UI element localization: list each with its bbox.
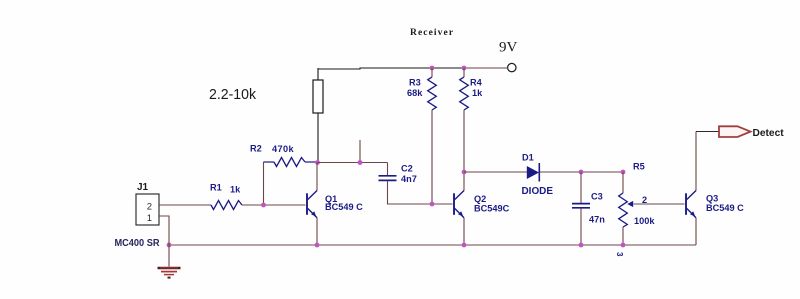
svg-text:R1: R1: [210, 183, 222, 193]
wire: pot bottom lead down to node: [317, 113, 319, 163]
Q1 emitter arrowhead: [311, 211, 316, 216]
wire: pot top lead: [317, 68, 319, 80]
svg-text:9V: 9V: [499, 40, 518, 56]
resistor R3 (68k): [431, 68, 433, 77]
svg-text:47n: 47n: [589, 214, 605, 224]
wire: R1 to Q1 base: [242, 204, 306, 206]
wire: collector node to D1 anode: [464, 171, 527, 173]
node junction rail/Q1 emitter: [315, 243, 320, 248]
transistor Q3 base bar: [685, 193, 687, 215]
wire: vertical from R1 node up to R2: [263, 162, 265, 205]
Q2 emitter arrowhead: [458, 211, 463, 216]
node junction top rail R4: [462, 66, 467, 71]
svg-text:DIODE: DIODE: [522, 186, 554, 197]
wire: Q3 collector up to port: [695, 132, 697, 191]
node junction rail/R5: [621, 243, 626, 248]
svg-text:2: 2: [147, 201, 152, 212]
svg-text:2.2-10k: 2.2-10k: [209, 86, 256, 103]
wire: R4 bottom lead to collector node: [463, 110, 465, 172]
diode D1 cathode bar: [538, 163, 540, 182]
svg-text:C2: C2: [401, 163, 413, 173]
resistor 2.2-10k (box body): [313, 80, 323, 113]
wire: D1 cathode to C3 node and R5: [540, 171, 623, 173]
svg-text:D1: D1: [522, 153, 534, 163]
wire: J1 pin2 to R1: [159, 204, 211, 206]
svg-text:Detect: Detect: [753, 128, 785, 139]
resistor R2 (470k): [264, 161, 275, 163]
resistor R1 (1k): [211, 201, 242, 210]
ground symbol bar 2: [161, 271, 177, 273]
capacitor C3 top plate: [572, 203, 590, 205]
port Detect: [719, 126, 751, 137]
svg-text:J1: J1: [137, 182, 149, 193]
wire: Q2 collector up to R4 node: [463, 172, 465, 191]
svg-text:100k: 100k: [634, 216, 655, 226]
wire: C3 bottom lead to ground rail: [580, 209, 582, 246]
R5 wiper arrow: [627, 201, 633, 207]
transistor Q1 base bar: [306, 193, 308, 215]
wire: Q3 emitter down to ground rail: [695, 218, 697, 245]
wire: down to C2 top plate: [387, 163, 389, 176]
wire: node to C2: [318, 162, 388, 164]
wire: R5 bottom lead to ground rail: [622, 227, 624, 245]
svg-text:68k: 68k: [407, 88, 423, 98]
Q3 emitter arrowhead: [690, 211, 695, 216]
svg-text:470k: 470k: [272, 144, 295, 154]
transistor Q2 collector: [455, 191, 464, 200]
node junction C3 top: [579, 170, 584, 175]
svg-text:R4: R4: [470, 78, 483, 88]
wire: C2 bottom plate down and right to Q2 base: [388, 181, 453, 204]
node junction R5 top: [621, 170, 626, 175]
svg-text:Q3: Q3: [706, 193, 718, 203]
resistor R4 (1k): [463, 68, 465, 77]
svg-text:C3: C3: [591, 191, 603, 201]
wire: C3 top lead: [580, 172, 582, 203]
transistor Q2 emitter: [455, 209, 464, 218]
wire: antenna stub: [359, 140, 361, 163]
transistor Q2 base bar: [453, 193, 455, 215]
9V terminal circle: [508, 63, 516, 71]
wire: J1 pin1 to ground: [159, 216, 169, 267]
svg-text:Receiver: Receiver: [410, 28, 454, 38]
potentiometer R5 top lead: [622, 172, 624, 193]
wire: Q2 emitter down to ground rail: [463, 218, 465, 245]
transistor Q3 collector: [687, 191, 696, 200]
capacitor C3 bottom plate: [572, 207, 590, 209]
svg-text:1k: 1k: [472, 88, 483, 98]
diode D1 triangle: [527, 166, 539, 179]
wire: R5 wiper to Q3 base: [634, 203, 685, 205]
node junction R4/Q2 collector/D1: [462, 170, 467, 175]
svg-text:R5: R5: [633, 162, 645, 172]
node junction C2/R3/Q2 base: [430, 202, 435, 207]
transistor Q1 emitter: [308, 209, 317, 218]
svg-text:1: 1: [147, 213, 152, 224]
capacitor C2 bottom plate: [379, 179, 397, 181]
wire: top rail from pot top to R3 junction (black): [318, 68, 464, 69]
node junction at R1/R2/Q1 base: [261, 203, 266, 208]
node junction at stub: [358, 160, 363, 165]
node junction rail/J1: [167, 243, 172, 248]
wire: R3 bottom lead down to Q2 base node: [431, 110, 433, 204]
svg-text:R2: R2: [250, 144, 262, 154]
svg-text:MC400 SR: MC400 SR: [115, 237, 160, 249]
ground symbol bar 4: [168, 277, 171, 279]
transistor Q1 collector: [308, 191, 317, 200]
wire: Q1 collector up to node: [316, 163, 318, 191]
ground symbol bar 1 red tint: [160, 267, 178, 269]
svg-text:1k: 1k: [230, 185, 241, 195]
node junction rail/Q2 emitter: [462, 243, 467, 248]
ground symbol bar 3: [164, 274, 174, 276]
wire: top rail R4 junction to 9V circle: [464, 67, 508, 69]
ground symbol bar 1: [158, 267, 181, 270]
connector J1 box: [136, 194, 159, 225]
wire: Q1 emitter down to ground rail: [316, 218, 318, 245]
wire: ground rail (bottom bus): [169, 244, 696, 246]
svg-text:4n7: 4n7: [401, 174, 417, 184]
node junction pot/R2/Q1 collector: [315, 160, 320, 165]
wire: collector corner to port (black): [696, 131, 719, 133]
node junction rail/C3: [579, 243, 584, 248]
svg-text:3: 3: [615, 252, 624, 257]
capacitor C2 top plate: [379, 175, 397, 177]
svg-text:BC549C: BC549C: [474, 203, 510, 213]
node junction top rail R3: [430, 66, 435, 71]
transistor Q3 emitter: [687, 209, 696, 218]
svg-text:BC549 C: BC549 C: [325, 202, 363, 212]
svg-text:BC549 C: BC549 C: [706, 203, 744, 213]
svg-text:R3: R3: [409, 78, 421, 88]
potentiometer R5 body: [619, 193, 628, 227]
